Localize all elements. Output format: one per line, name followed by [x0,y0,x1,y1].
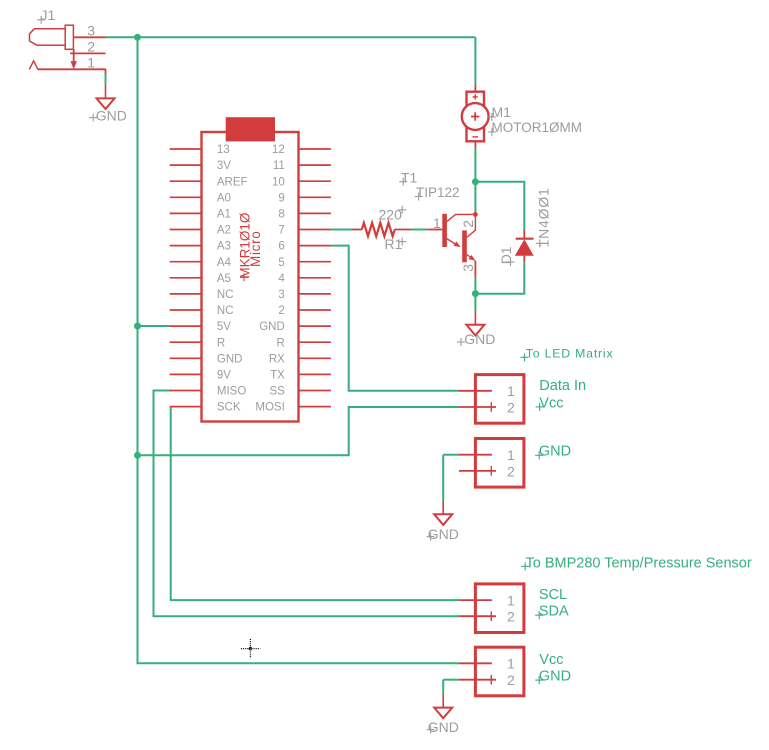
svg-text:9: 9 [278,192,284,204]
svg-text:220: 220 [379,207,403,223]
svg-text:MISO: MISO [217,386,246,398]
svg-text:2: 2 [460,220,476,228]
svg-text:Vcc: Vcc [539,652,563,668]
svg-text:5V: 5V [217,321,231,333]
svg-text:2: 2 [507,399,515,415]
svg-text:A2: A2 [217,225,231,237]
svg-text:2: 2 [507,672,515,688]
svg-text:2: 2 [507,609,515,625]
svg-text:R: R [217,337,225,349]
svg-text:J1: J1 [41,7,56,23]
svg-text:NC: NC [217,305,234,317]
svg-text:3: 3 [87,23,95,39]
svg-text:2: 2 [278,305,284,317]
svg-text:SDA: SDA [539,604,569,620]
svg-text:SS: SS [269,386,285,398]
svg-text:3: 3 [460,264,476,272]
svg-text:9V: 9V [217,370,231,382]
svg-text:GND: GND [464,331,495,347]
svg-text:GND: GND [259,321,285,333]
svg-text:A0: A0 [217,192,231,204]
svg-text:7: 7 [278,225,284,237]
svg-text:R: R [276,337,284,349]
svg-text:A1: A1 [217,209,231,221]
svg-text:1: 1 [87,55,95,71]
svg-text:To BMP280 Temp/Pressure Sensor: To BMP280 Temp/Pressure Sensor [526,556,752,572]
svg-text:11: 11 [273,160,285,172]
svg-text:5: 5 [278,257,284,269]
svg-text:8: 8 [278,209,284,221]
svg-text:Data In: Data In [539,378,586,394]
svg-text:13: 13 [217,144,230,156]
svg-text:SCK: SCK [217,402,241,414]
svg-text:A5: A5 [217,273,231,285]
svg-text:M1: M1 [492,104,512,120]
svg-text:GND: GND [217,353,243,365]
svg-text:GND: GND [539,444,571,460]
svg-text:6: 6 [278,241,284,253]
svg-text:Vcc: Vcc [539,395,563,411]
svg-text:TX: TX [270,370,285,382]
svg-text:4: 4 [278,273,285,285]
svg-text:3V: 3V [217,160,231,172]
svg-text:SCL: SCL [539,587,567,603]
svg-text:1: 1 [433,215,441,231]
svg-text:MOSI: MOSI [255,402,284,414]
svg-text:AREF: AREF [217,176,248,188]
svg-text:1: 1 [507,656,515,672]
svg-text:3: 3 [278,289,284,301]
svg-text:A3: A3 [217,241,231,253]
svg-text:1N4ØØ1: 1N4ØØ1 [535,187,551,247]
svg-text:TIP122: TIP122 [416,185,460,200]
svg-text:10: 10 [272,176,285,188]
svg-text:2: 2 [87,39,95,55]
svg-text:GND: GND [539,669,571,685]
svg-text:12: 12 [272,144,285,156]
svg-text:R1: R1 [385,236,403,252]
svg-text:MOTOR1ØMM: MOTOR1ØMM [492,120,583,135]
svg-text:GND: GND [96,107,127,123]
svg-text:NC: NC [217,289,234,301]
svg-text:To LED Matrix: To LED Matrix [526,346,614,360]
svg-text:Micro: Micro [248,231,263,268]
svg-text:RX: RX [269,353,285,365]
svg-text:GND: GND [428,719,459,735]
svg-text:2: 2 [507,463,515,479]
svg-text:1: 1 [507,593,515,609]
svg-text:1: 1 [507,383,515,399]
svg-text:A4: A4 [217,257,232,269]
svg-text:1: 1 [507,447,515,463]
svg-text:GND: GND [428,526,459,542]
